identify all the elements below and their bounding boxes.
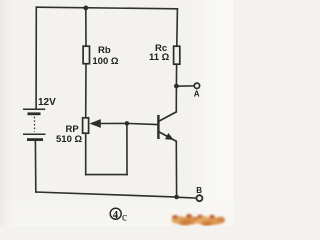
wire U right vertical up to wiper node <box>126 123 128 174</box>
wire wiper horizontal <box>101 122 127 124</box>
svg-text:c: c <box>122 209 127 223</box>
node junction wiper/base <box>125 121 130 126</box>
svg-text:12V: 12V <box>38 97 56 108</box>
wire left vertical <box>35 7 37 109</box>
svg-text:510 Ω: 510 Ω <box>56 134 82 145</box>
battery 12V <box>23 109 46 139</box>
terminal B <box>196 195 202 201</box>
potentiometer RP wiper arrow <box>89 119 100 128</box>
wire battery bottom lead <box>34 141 36 192</box>
wire bottom horizontal <box>36 192 177 197</box>
wire Rc bottom lead <box>175 64 177 86</box>
wire base <box>127 123 157 124</box>
potentiometer RP body <box>83 118 89 133</box>
svg-text:A: A <box>194 90 200 99</box>
wire node A horizontal <box>176 85 194 87</box>
wire emitter vertical <box>175 141 177 197</box>
wire collector vertical <box>175 86 177 112</box>
svg-text:B: B <box>196 186 202 195</box>
svg-text:100 Ω: 100 Ω <box>92 56 118 67</box>
transistor Q1 <box>157 112 176 141</box>
node junction top (Rb to top wire) <box>83 6 88 11</box>
svg-text:11 Ω: 11 Ω <box>149 52 170 63</box>
wire top horizontal <box>36 7 177 9</box>
wire Rb to RP vertical <box>85 64 87 118</box>
resistor Rc <box>174 46 180 64</box>
wire U bottom horizontal <box>86 174 127 176</box>
svg-text:4: 4 <box>113 209 119 221</box>
caption circled 4 <box>110 208 121 221</box>
wire right vertical to Rc <box>176 9 179 46</box>
node junction bottom (emitter to bottom wire) <box>174 195 179 200</box>
wire RP bottom lead <box>85 133 87 174</box>
resistor Rb <box>83 46 89 64</box>
wire Rb top lead <box>85 8 87 46</box>
svg-text:Rb: Rb <box>98 45 111 56</box>
wire node B horizontal <box>177 196 197 199</box>
node junction A column <box>174 84 179 89</box>
terminal A <box>194 83 199 88</box>
orange watermark artifact bottom right <box>172 214 226 226</box>
